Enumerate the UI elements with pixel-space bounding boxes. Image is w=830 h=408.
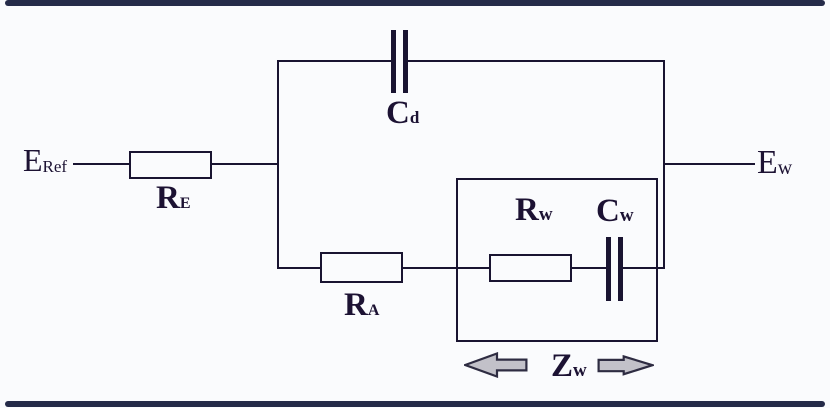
resistor R_A [320, 252, 403, 283]
wire R_A to R_W [403, 267, 489, 269]
arrow right (Z_W range) [597, 355, 654, 376]
wire C_W to right branch [623, 267, 665, 269]
label R_E [156, 182, 191, 215]
label Z_W [551, 350, 587, 383]
resistor R_W [489, 254, 572, 282]
label C_W [596, 195, 634, 228]
Warburg box Z_W [456, 178, 658, 342]
label R_W [515, 194, 553, 227]
top border bar [5, 0, 825, 6]
label C_d [386, 97, 419, 130]
wire right branch vertical [663, 60, 665, 269]
bottom border bar [5, 401, 825, 407]
wire R_E to node A [212, 163, 279, 165]
wire E_Ref to R_E [73, 163, 130, 165]
arrow left (Z_W range) [464, 352, 528, 378]
capacitor C_d [391, 30, 396, 93]
wire R_W to C_W [572, 267, 606, 269]
wire top branch right [408, 60, 665, 62]
resistor R_E [129, 151, 212, 179]
node E_W label [757, 146, 792, 180]
wire to E_W [665, 163, 755, 165]
capacitor C_W [606, 237, 611, 301]
label R_A [344, 289, 379, 322]
wire left branch vertical [277, 60, 279, 269]
wire top branch left [277, 60, 391, 62]
wire bottom branch left [277, 267, 320, 269]
node E_Ref label [23, 144, 67, 176]
